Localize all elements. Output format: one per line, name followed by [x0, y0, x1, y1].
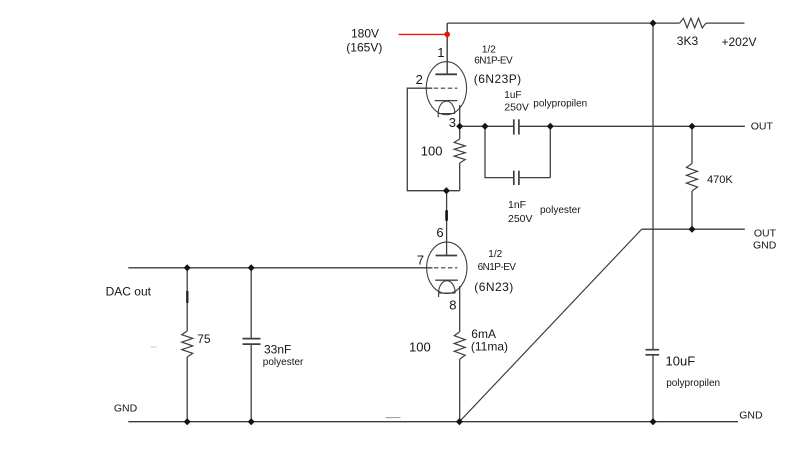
svg-text:8: 8	[449, 297, 456, 312]
svg-text:470K: 470K	[707, 174, 733, 186]
svg-text:1/2: 1/2	[488, 249, 502, 260]
svg-text:DAC out: DAC out	[106, 285, 152, 299]
svg-text:3K3: 3K3	[677, 34, 699, 48]
svg-text:1: 1	[437, 45, 444, 60]
svg-text:3: 3	[449, 115, 456, 130]
svg-text:10uF: 10uF	[666, 354, 696, 369]
svg-text:(6N23P): (6N23P)	[474, 72, 522, 86]
svg-text:33nF: 33nF	[264, 343, 291, 357]
svg-text:OUT: OUT	[751, 121, 774, 133]
svg-text:(165V): (165V)	[346, 41, 382, 55]
svg-text:1/2: 1/2	[482, 44, 496, 55]
svg-text:1uF: 1uF	[504, 90, 521, 101]
svg-text:250V: 250V	[508, 213, 533, 225]
svg-text:polyester: polyester	[263, 357, 304, 368]
svg-text:polyester: polyester	[540, 205, 581, 216]
svg-text:(6N23): (6N23)	[474, 280, 513, 294]
svg-text:2: 2	[416, 72, 423, 87]
svg-text:GND: GND	[753, 240, 777, 252]
svg-text:100: 100	[409, 340, 431, 355]
svg-text:GND: GND	[114, 403, 138, 415]
svg-text:polypropilen: polypropilen	[533, 99, 587, 110]
svg-text:75: 75	[197, 332, 211, 346]
svg-text:100: 100	[421, 143, 443, 158]
svg-text:7: 7	[417, 253, 424, 268]
svg-text:6: 6	[436, 225, 443, 240]
svg-text:polypropilen: polypropilen	[666, 378, 720, 389]
svg-text:+202V: +202V	[722, 35, 757, 49]
svg-text:GND: GND	[739, 410, 763, 422]
svg-text:OUT: OUT	[754, 228, 777, 240]
svg-text:(11ma): (11ma)	[471, 339, 508, 353]
svg-text:6N1P-EV: 6N1P-EV	[478, 262, 517, 273]
svg-text:6N1P-EV: 6N1P-EV	[474, 56, 513, 67]
svg-text:180V: 180V	[351, 27, 379, 41]
svg-text:250V: 250V	[504, 102, 529, 114]
svg-text:1nF: 1nF	[508, 199, 526, 211]
